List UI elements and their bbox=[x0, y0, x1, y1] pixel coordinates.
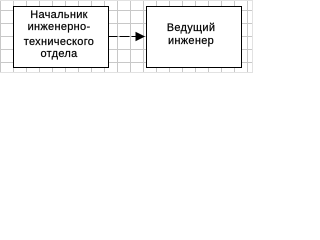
dashed connector bbox=[109, 36, 137, 38]
arrowhead bbox=[136, 32, 146, 41]
text box 1 line 2 bbox=[13, 21, 105, 34]
box 2: Ведущий инженер bbox=[147, 7, 242, 68]
text box 1 line 3 bbox=[13, 36, 105, 49]
grid bbox=[0, 0, 253, 73]
text box 1 line 4 bbox=[13, 48, 105, 61]
text box 1 line 1 bbox=[13, 9, 105, 22]
text box 2 bbox=[146, 22, 236, 48]
box 1: Начальник инженерно-технического отдела bbox=[14, 7, 109, 68]
canvas edge lines (lighter) bbox=[0, 0, 253, 73]
